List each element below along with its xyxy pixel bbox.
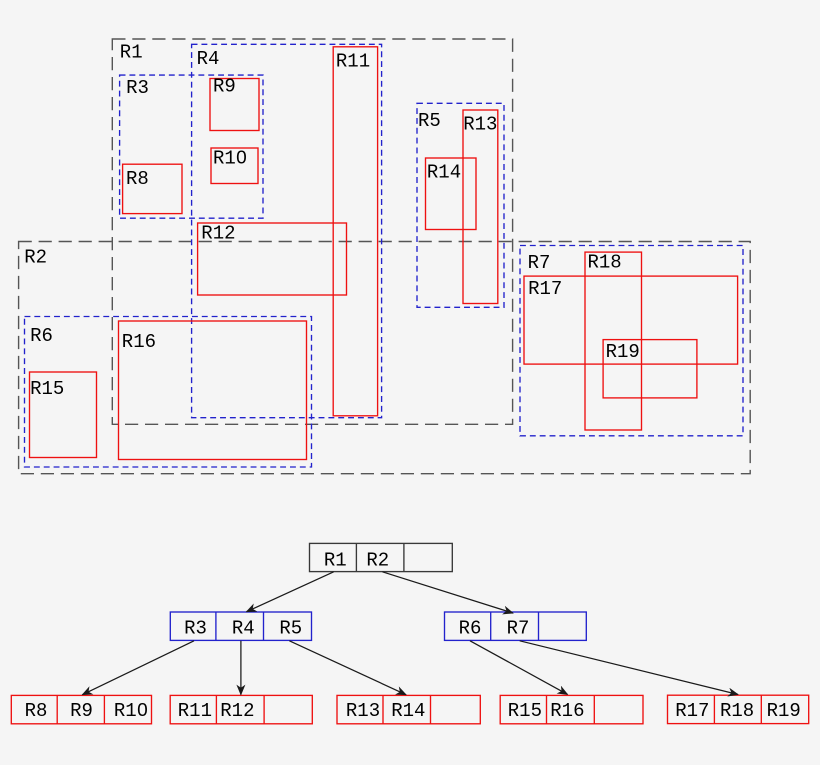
svg-text:R5: R5 bbox=[418, 110, 441, 132]
arrow root R2 to node R6R7 bbox=[382, 572, 513, 613]
svg-text:R2: R2 bbox=[366, 549, 389, 571]
svg-text:R5: R5 bbox=[279, 618, 302, 640]
rectangle R12 (red leaf rect) bbox=[198, 223, 347, 295]
svg-text:R19: R19 bbox=[767, 700, 801, 722]
svg-text:R16: R16 bbox=[550, 700, 584, 722]
svg-text:R11: R11 bbox=[336, 51, 370, 73]
svg-text:R13: R13 bbox=[346, 700, 380, 722]
svg-text:R1: R1 bbox=[324, 549, 347, 571]
rectangle R15 (red leaf rect) bbox=[30, 372, 97, 458]
rectangle R7 (blue dashed node) bbox=[520, 246, 743, 436]
svg-text:R18: R18 bbox=[720, 700, 754, 722]
svg-text:R17: R17 bbox=[675, 700, 709, 722]
rectangle R4 (blue dashed node) bbox=[192, 44, 382, 417]
rectangle R2 (gray dashed directory node) bbox=[19, 242, 751, 474]
rectangle R18 (red leaf rect) bbox=[585, 252, 642, 430]
svg-text:R2: R2 bbox=[24, 247, 47, 269]
svg-text:R8: R8 bbox=[126, 168, 149, 190]
arrow R4 to leaf R11R12 bbox=[240, 641, 242, 695]
svg-text:R11: R11 bbox=[178, 700, 212, 722]
svg-text:R7: R7 bbox=[507, 618, 530, 640]
svg-text:R12: R12 bbox=[220, 700, 254, 722]
svg-text:R19: R19 bbox=[606, 341, 640, 363]
tree leaf node box R13|R14 bbox=[337, 695, 480, 723]
svg-text:R9: R9 bbox=[213, 76, 236, 98]
svg-text:R1: R1 bbox=[120, 42, 143, 64]
arrow root R1 to node R3R4R5 bbox=[247, 572, 334, 612]
rectangle R10 (red leaf rect) bbox=[211, 148, 258, 184]
tree leaf node box R11|R12 bbox=[170, 695, 312, 723]
rectangle R6 (blue dashed node) bbox=[25, 317, 312, 468]
svg-text:R3: R3 bbox=[126, 77, 149, 99]
rectangle R11 (red leaf rect) bbox=[333, 47, 377, 416]
rectangle R17 (red leaf rect) bbox=[524, 276, 738, 364]
rectangle R1 (gray dashed directory node) bbox=[112, 39, 512, 424]
svg-text:R18: R18 bbox=[588, 251, 622, 273]
svg-text:R4: R4 bbox=[197, 48, 220, 70]
rectangle R16 (red leaf rect) bbox=[119, 321, 307, 460]
rectangle R9 (red leaf rect) bbox=[210, 79, 259, 131]
svg-text:R13: R13 bbox=[463, 114, 497, 136]
tree leaf node box R15|R16 bbox=[500, 695, 643, 723]
tree root node box R1|R2 bbox=[310, 543, 453, 571]
rectangle R19 (red leaf rect) bbox=[603, 340, 697, 398]
tree leaf node box R8|R9|R10 bbox=[11, 695, 151, 723]
arrow R3 to leaf R8R9R10 bbox=[82, 641, 194, 695]
rectangle R5 (blue dashed node) bbox=[417, 103, 504, 307]
svg-text:R15: R15 bbox=[30, 378, 64, 400]
arrow R5 to leaf R13R14 bbox=[289, 641, 406, 695]
svg-text:R6: R6 bbox=[30, 325, 53, 347]
tree mid node box R3|R4|R5 bbox=[170, 612, 311, 640]
tree leaf node box R17|R18|R19 bbox=[668, 695, 809, 723]
svg-text:R17: R17 bbox=[528, 278, 562, 300]
rectangle R8 (red leaf rect) bbox=[123, 164, 182, 213]
svg-text:R3: R3 bbox=[184, 618, 207, 640]
svg-text:R14: R14 bbox=[391, 700, 425, 722]
svg-text:R4: R4 bbox=[232, 618, 255, 640]
rectangle R13 (red leaf rect) bbox=[463, 110, 498, 304]
svg-text:R16: R16 bbox=[122, 331, 156, 353]
arrow R7 to leaf R17R18R19 bbox=[520, 641, 738, 695]
svg-text:R12: R12 bbox=[201, 222, 235, 244]
svg-text:R7: R7 bbox=[528, 252, 551, 274]
rectangle R3 (blue dashed node) bbox=[120, 75, 263, 218]
rectangle R14 (red leaf rect) bbox=[426, 158, 477, 230]
svg-text:R6: R6 bbox=[459, 618, 482, 640]
svg-text:R15: R15 bbox=[508, 700, 542, 722]
svg-text:R9: R9 bbox=[70, 700, 93, 722]
tree mid node box R6|R7 bbox=[445, 612, 587, 640]
arrow R6 to leaf R15R16 bbox=[470, 641, 568, 695]
svg-text:R14: R14 bbox=[427, 161, 461, 183]
svg-text:R8: R8 bbox=[25, 700, 48, 722]
